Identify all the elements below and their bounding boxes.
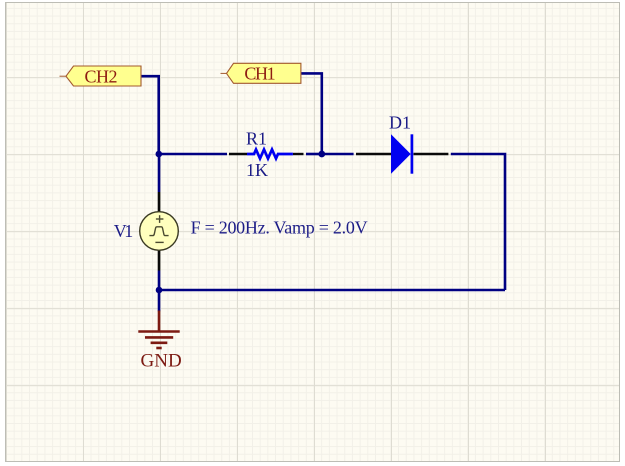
D1 triangle [391,134,411,173]
wire V1 minus pin down to node C [158,271,161,291]
svg-text:R1: R1 [246,129,267,149]
sheet entry flag CH1 [221,63,301,83]
CH2 flag body [66,66,141,86]
R1 pin 2 [293,153,304,155]
svg-text:GND: GND [141,350,182,371]
svg-text:V1: V1 [114,221,134,241]
V1 pulse waveform glyph [149,227,168,236]
sheet entry flag CH2 [60,66,142,86]
wire node A down to V1 plus pin [158,154,161,192]
ground stem [158,311,161,332]
svg-text:F = 200Hz. Vamp = 2.0V: F = 200Hz. Vamp = 2.0V [191,218,368,238]
svg-text:1K: 1K [246,160,268,180]
R1 pin 1 [229,153,247,155]
diode D1 [356,113,448,174]
wire from CH2 sheet entry to node A [141,76,159,154]
D1 cathode bar [411,134,414,173]
ground bar 4 [156,347,161,350]
wire D1 cathode pin to right side, down to bottom rail [451,154,505,290]
V1 minus pin [158,250,161,270]
resistor R1 [229,129,304,181]
wire from CH1 sheet entry to node B [301,73,322,154]
wire node A to R1 pin 1 [158,153,227,156]
svg-text:D1: D1 [389,113,411,133]
node B junction [318,151,325,158]
wire node C down to ground symbol [158,290,161,311]
D1 anode pin [356,153,391,155]
CH2 pin stub [60,75,67,77]
svg-text:CH2: CH2 [85,66,118,86]
V1 circle body [140,212,179,251]
V1 plus sign [156,218,164,220]
node A junction [156,151,163,158]
CH1 flag body [227,63,301,83]
ground bar 1 [138,330,179,333]
V1 minus sign [155,241,163,243]
wire bottom return rail to node C [159,289,505,292]
CH1 pin stub [221,72,227,74]
wire node B to D1 anode pin [322,153,354,156]
ground bar 2 [145,336,173,339]
node C junction [156,287,163,294]
V1 plus pin [158,192,161,212]
pulse voltage source V1 [114,192,368,271]
R1 zigzag body [247,150,293,159]
svg-text:CH1: CH1 [244,64,275,84]
wire R1 pin 2 to node B [306,153,322,156]
ground GND power port [138,311,181,372]
D1 cathode pin [414,153,449,155]
ground bar 3 [151,341,168,344]
